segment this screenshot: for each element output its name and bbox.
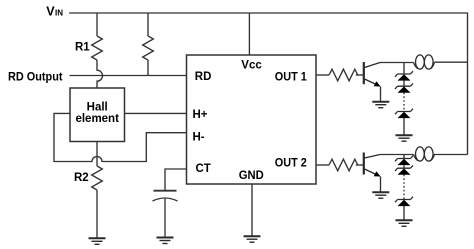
svg-text:OUT 1: OUT 1 (275, 72, 308, 84)
svg-text:GND: GND (239, 170, 264, 182)
svg-text:H+: H+ (193, 109, 208, 121)
svg-text:R1: R1 (75, 42, 90, 54)
svg-text:R2: R2 (74, 172, 89, 184)
svg-text:V: V (46, 5, 55, 19)
svg-text:Vcc: Vcc (241, 59, 262, 71)
svg-text:OUT 2: OUT 2 (275, 157, 307, 169)
svg-text:H-: H- (193, 132, 205, 144)
svg-text:Hall: Hall (87, 102, 108, 114)
svg-text:CT: CT (196, 163, 211, 175)
svg-text:element: element (75, 113, 119, 125)
svg-text:RD: RD (195, 71, 212, 83)
svg-text:RD Output: RD Output (8, 71, 63, 83)
svg-text:IN: IN (55, 9, 63, 18)
